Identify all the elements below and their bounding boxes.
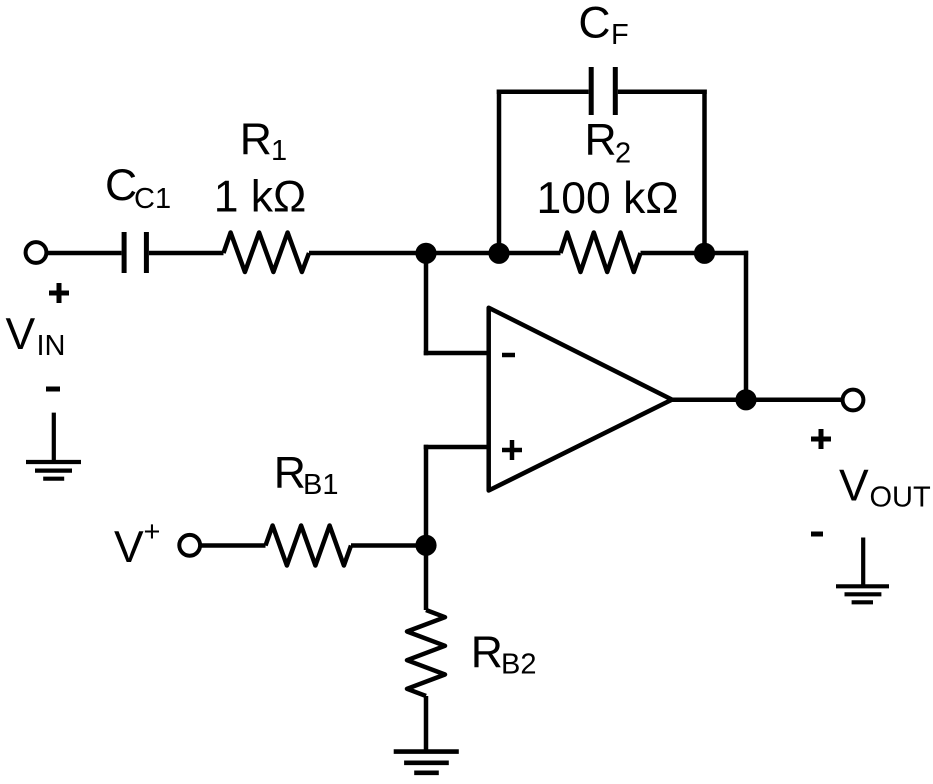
- wire inverting input vertical: [424, 253, 429, 355]
- input terminal: [26, 242, 47, 263]
- svg-text:1 kΩ: 1 kΩ: [214, 173, 307, 222]
- label CC1: [105, 161, 171, 215]
- wire input to CC1: [47, 251, 122, 256]
- svg-text:1: 1: [271, 135, 287, 167]
- wire R1 to R2: [309, 251, 561, 256]
- label VOUT minus: [811, 532, 823, 537]
- svg-text:R: R: [585, 116, 617, 165]
- svg-text:F: F: [611, 19, 629, 51]
- svg-text:2: 2: [615, 137, 631, 169]
- wire op-amp output: [671, 398, 841, 403]
- output terminal: [843, 390, 864, 411]
- svg-text:B1: B1: [303, 469, 338, 501]
- wire noninverting input vertical: [424, 445, 429, 546]
- label V+ supply: [114, 516, 160, 572]
- label RB2: [471, 628, 537, 681]
- label VIN plus: [49, 283, 69, 303]
- label VIN: [6, 310, 66, 362]
- label RB1: [274, 449, 339, 502]
- wire noninverting input horizontal: [424, 445, 489, 450]
- wire feedback top right: [618, 90, 707, 95]
- svg-text:C: C: [578, 0, 610, 47]
- svg-text:R: R: [274, 449, 306, 498]
- label R1: [240, 115, 287, 167]
- svg-text:V: V: [114, 523, 144, 572]
- svg-text:100 kΩ: 100 kΩ: [537, 174, 679, 223]
- resistor R2: [561, 233, 641, 273]
- node E (output junction): [735, 389, 756, 410]
- wire node D to RB2: [424, 546, 429, 611]
- svg-text:R: R: [240, 115, 272, 164]
- ground (input): [26, 413, 81, 479]
- resistor R1: [224, 233, 310, 273]
- svg-text:OUT: OUT: [870, 482, 932, 514]
- svg-text:V: V: [839, 462, 869, 511]
- label R2: [585, 116, 632, 170]
- wire feedback right vertical: [702, 90, 707, 253]
- svg-text:IN: IN: [37, 330, 66, 362]
- svg-text:V: V: [6, 310, 36, 359]
- capacitor CF: [591, 67, 615, 115]
- label VOUT plus: [811, 429, 831, 449]
- label VIN minus: [46, 387, 60, 392]
- node C (feedback right junction): [694, 243, 715, 264]
- wire feedback left vertical: [497, 90, 502, 253]
- op-amp minus sign: [502, 353, 515, 358]
- svg-text:C1: C1: [134, 183, 171, 215]
- V+ terminal: [179, 535, 200, 556]
- wire feedback top left: [497, 90, 589, 95]
- resistor RB2: [407, 610, 445, 696]
- node D (bias junction): [415, 535, 436, 556]
- wire output riser: [744, 251, 749, 400]
- svg-text:C: C: [105, 161, 137, 210]
- wire RB1 to node D: [351, 543, 426, 548]
- resistor RB1: [266, 526, 352, 566]
- svg-text:B2: B2: [501, 649, 536, 681]
- ground (output): [836, 538, 889, 603]
- wire V+ to RB1: [200, 543, 266, 548]
- op-amp U1: [489, 308, 672, 491]
- ground (bias, bottom): [394, 752, 459, 773]
- node A (R1 / inverting input junction): [415, 243, 436, 264]
- wire R2 to output corner: [641, 251, 749, 256]
- label VOUT: [839, 462, 931, 514]
- capacitor CC1: [124, 232, 146, 273]
- label CF: [578, 0, 628, 51]
- svg-text:R: R: [471, 628, 503, 677]
- node B (feedback left junction): [488, 243, 509, 264]
- svg-text:+: +: [144, 516, 161, 548]
- wire inverting input horizontal: [424, 351, 489, 356]
- op-amp plus sign: [502, 440, 522, 460]
- wire RB2 to ground: [424, 696, 429, 752]
- wire CC1 to R1: [149, 251, 224, 256]
